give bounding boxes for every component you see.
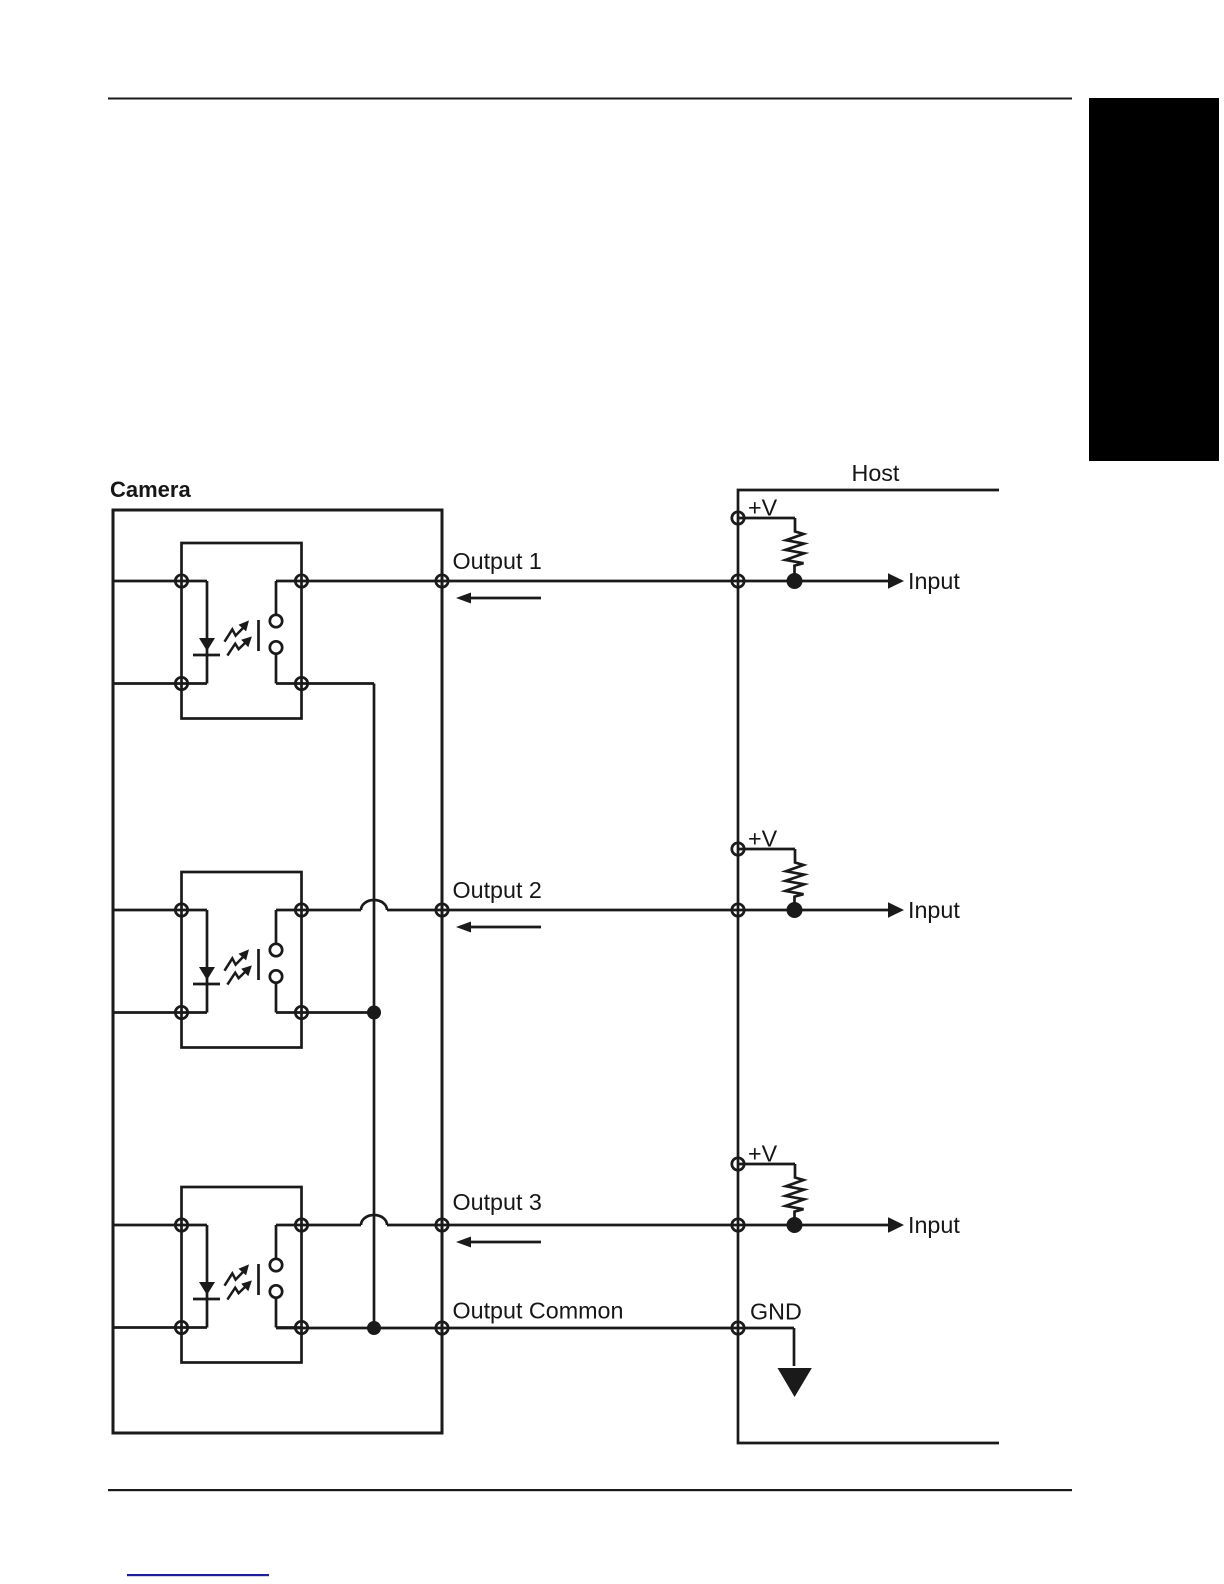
svg-text:Camera: Camera <box>110 477 191 502</box>
svg-text:Output Common: Output Common <box>453 1298 624 1324</box>
svg-text:Output 1: Output 1 <box>453 548 542 574</box>
svg-text:Output 2: Output 2 <box>453 877 542 903</box>
svg-text:+V: +V <box>748 1141 778 1167</box>
svg-text:Input: Input <box>908 1212 960 1238</box>
svg-text:Input: Input <box>908 897 960 923</box>
svg-text:Input: Input <box>908 568 960 594</box>
svg-text:Host: Host <box>852 460 900 486</box>
svg-text:GND: GND <box>750 1299 802 1325</box>
svg-text:Output 3: Output 3 <box>453 1189 542 1215</box>
svg-text:+V: +V <box>748 826 778 852</box>
svg-text:+V: +V <box>748 495 778 521</box>
